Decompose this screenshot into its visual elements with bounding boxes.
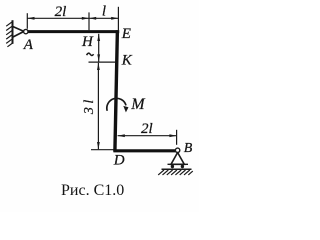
- svg-text:H: H: [81, 34, 94, 50]
- svg-text:D: D: [113, 152, 125, 168]
- svg-text:B: B: [184, 141, 193, 156]
- ground line at B: [162, 168, 192, 170]
- dimension line 2l (bottom): [118, 135, 177, 137]
- beam A-E (top horizontal member): [27, 30, 119, 33]
- arrowhead up (to K tick): [97, 63, 100, 70]
- vertical member E-D: [115, 30, 118, 151]
- dimension line l (E to K, vertical): [98, 34, 100, 62]
- roller right: [181, 165, 184, 168]
- arrowhead down (to D tick): [97, 142, 100, 149]
- rotated label l (E-K dimension): [87, 53, 94, 55]
- K tick line: [89, 61, 116, 63]
- svg-text:2l: 2l: [55, 4, 67, 20]
- dimension line 3l (K to D, vertical): [97, 63, 99, 149]
- arrowhead left at member: [118, 134, 125, 137]
- extension line above B: [176, 130, 178, 145]
- extension line above E: [117, 7, 119, 30]
- svg-text:K: K: [121, 53, 133, 69]
- moment M arc: [107, 98, 126, 110]
- svg-text:M: M: [130, 96, 146, 113]
- roller left: [171, 165, 174, 168]
- svg-text:3l: 3l: [82, 96, 97, 115]
- pin circle at A: [24, 29, 28, 33]
- arrowhead pointing right at E: [111, 17, 118, 20]
- arrowhead pointing right at H tick: [82, 17, 89, 20]
- D tick line: [91, 149, 114, 151]
- arrowhead left at A (points left): [27, 17, 34, 20]
- caption Рис. С1.0: [61, 182, 191, 200]
- arrowhead pointing left at H tick: [89, 17, 96, 20]
- beam D-B (bottom horizontal member): [113, 149, 175, 152]
- extension tick above H: [88, 12, 90, 30]
- ground hatching at B: [158, 170, 193, 175]
- svg-text:l: l: [102, 3, 106, 19]
- wall line of support A: [12, 20, 14, 44]
- roller support triangle at B: [171, 153, 184, 165]
- pin triangle of support A: [13, 26, 24, 37]
- arrowhead up (to beam): [97, 34, 100, 41]
- arrowhead right at B: [169, 134, 176, 137]
- svg-text:2l: 2l: [141, 121, 153, 137]
- roller support base line: [168, 163, 189, 165]
- svg-text:A: A: [23, 37, 34, 53]
- dimension line 2l + l (top): [27, 17, 118, 19]
- wall hatching at support A: [6, 22, 12, 47]
- moment M arrowhead: [123, 106, 128, 113]
- pin circle at B: [175, 148, 179, 152]
- extension line above A: [26, 13, 28, 29]
- svg-text:E: E: [121, 26, 131, 42]
- arrowhead down (to K tick): [97, 54, 100, 61]
